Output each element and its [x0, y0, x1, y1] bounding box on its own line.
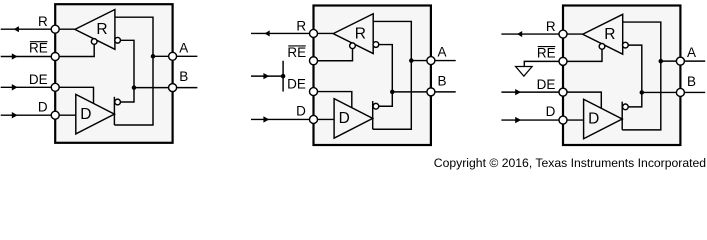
wire A bus to pin A	[153, 55, 197, 57]
receiver enable bubble	[350, 43, 356, 49]
driver buffer	[76, 94, 115, 133]
receiver inverting input bubble	[115, 37, 121, 43]
svg-text:D: D	[80, 106, 91, 123]
pin R	[559, 30, 567, 38]
pin A	[169, 52, 177, 60]
wire R pin to receiver output	[55, 28, 75, 30]
svg-text:A: A	[687, 45, 696, 60]
wire D pin to driver input	[563, 119, 584, 121]
wire B net to pin B	[134, 87, 197, 89]
driver buffer	[334, 99, 373, 138]
arrowhead D input U1	[12, 112, 18, 118]
wire DE input lead U1	[1, 86, 56, 88]
driver inverting output bubble	[115, 99, 121, 105]
receiver buffer	[75, 10, 115, 50]
wire D pin to driver input	[55, 114, 76, 116]
svg-text:R: R	[96, 21, 107, 38]
svg-text:DE: DE	[537, 77, 556, 92]
wire driver tip stub	[113, 97, 115, 125]
wire D input lead U2	[251, 118, 314, 120]
svg-text:B: B	[687, 74, 696, 89]
svg-text:R: R	[546, 19, 556, 34]
wire DE pin to driver enable	[314, 92, 352, 109]
pin B	[427, 88, 435, 96]
junction RE-DE tie U2	[281, 74, 286, 79]
wire driver tip stub	[372, 101, 374, 129]
wire RE to ground U3	[524, 61, 563, 66]
wire R pin to receiver output	[314, 32, 334, 34]
wire A bus: receiver non-inverting input to driver output	[373, 21, 412, 129]
pin DE	[559, 88, 567, 96]
svg-text:DE: DE	[287, 76, 306, 91]
pin B	[169, 84, 177, 92]
receiver inverting input bubble	[623, 42, 629, 48]
svg-text:A: A	[438, 45, 447, 60]
svg-text:Copyright © 2016, Texas Instru: Copyright © 2016, Texas Instruments Inco…	[434, 156, 706, 170]
wire D pin to driver input	[314, 118, 335, 120]
receiver enable bubble	[91, 39, 97, 45]
arrowhead R output U3	[517, 31, 522, 37]
svg-text:R: R	[604, 26, 615, 43]
junction B	[390, 90, 395, 95]
wire D input lead U1	[1, 114, 56, 116]
svg-text:R: R	[355, 25, 366, 42]
arrowhead DE input U1	[12, 84, 18, 90]
wire R output lead U1	[1, 28, 56, 30]
overline RE	[30, 41, 48, 43]
wire R pin to receiver output	[563, 33, 583, 35]
wire B net: receiver inverting input to driver inverting output	[120, 40, 134, 102]
svg-text:A: A	[179, 40, 188, 55]
wire enable input lead U2	[251, 75, 283, 77]
transceiver U1 box	[55, 4, 172, 143]
wire A bus: receiver non-inverting input to driver output	[114, 17, 153, 125]
pin DE	[51, 83, 59, 91]
svg-text:D: D	[339, 110, 350, 127]
svg-text:R: R	[38, 14, 48, 29]
wire driver tip stub	[621, 102, 623, 130]
receiver inverting input bubble	[373, 42, 379, 48]
ground	[516, 67, 533, 77]
arrowhead enable input U2	[263, 73, 269, 79]
wire R output lead U3	[501, 33, 563, 35]
junction B	[640, 90, 645, 95]
wire DE input lead U3	[501, 91, 563, 93]
svg-text:R: R	[296, 18, 306, 33]
wire A bus: receiver non-inverting input to driver output	[622, 22, 661, 130]
svg-text:D: D	[38, 99, 48, 114]
pin A	[676, 57, 684, 65]
driver inverting output bubble	[623, 104, 629, 110]
svg-text:D: D	[546, 104, 556, 119]
wire B net to pin B	[392, 91, 455, 93]
transceiver U2 box	[314, 6, 431, 146]
svg-text:DE: DE	[29, 72, 48, 87]
driver buffer	[584, 99, 623, 139]
arrowhead R output U1	[14, 26, 19, 32]
arrowhead D input U2	[263, 116, 269, 122]
pin A	[427, 57, 435, 65]
wire D input lead U3	[501, 119, 563, 121]
receiver enable bubble	[599, 44, 605, 50]
svg-text:B: B	[438, 73, 447, 88]
overline RE	[288, 45, 306, 47]
transceiver U3 box	[563, 6, 680, 146]
receiver buffer	[583, 14, 623, 54]
wire RE input lead U1	[1, 56, 56, 58]
arrowhead RE input U1	[12, 53, 18, 59]
svg-text:RE: RE	[29, 41, 48, 56]
wire B net: receiver inverting input to driver inverting output	[628, 45, 642, 107]
pin B	[676, 88, 684, 96]
wire DE pin to driver enable	[55, 87, 93, 104]
pin D	[310, 115, 318, 123]
svg-text:D: D	[296, 104, 306, 119]
pin D	[559, 116, 567, 124]
svg-text:B: B	[179, 69, 188, 84]
svg-text:RE: RE	[287, 45, 306, 60]
arrowhead R output U2	[265, 30, 270, 36]
pin RE	[51, 53, 59, 61]
wire B net to pin B	[642, 91, 705, 93]
wire RE-DE tie U2	[282, 61, 284, 92]
junction B	[132, 85, 137, 90]
svg-text:RE: RE	[537, 45, 556, 60]
arrowhead DE input U3	[515, 89, 521, 95]
wire RE pin to receiver enable bubble	[55, 44, 94, 56]
wire B net: receiver inverting input to driver inverting output	[379, 45, 393, 107]
pin RE	[559, 57, 567, 65]
wire DE pin to driver enable	[563, 92, 601, 109]
wire RE pin to receiver enable bubble	[314, 49, 353, 61]
receiver buffer	[333, 14, 373, 54]
overline RE	[538, 46, 556, 48]
arrowhead D input U3	[515, 117, 521, 123]
pin R	[310, 29, 318, 37]
junction A	[409, 58, 414, 63]
svg-text:D: D	[588, 111, 599, 128]
pin DE	[310, 88, 318, 96]
wire A bus to pin A	[411, 60, 455, 62]
junction A	[659, 59, 664, 64]
wire R output lead U2	[251, 32, 314, 34]
wire RE pin to receiver enable bubble	[563, 49, 602, 61]
pin R	[51, 25, 59, 33]
driver inverting output bubble	[373, 103, 379, 109]
junction A	[151, 54, 156, 59]
wire A bus to pin A	[661, 60, 705, 62]
pin D	[51, 111, 59, 119]
pin RE	[310, 57, 318, 65]
